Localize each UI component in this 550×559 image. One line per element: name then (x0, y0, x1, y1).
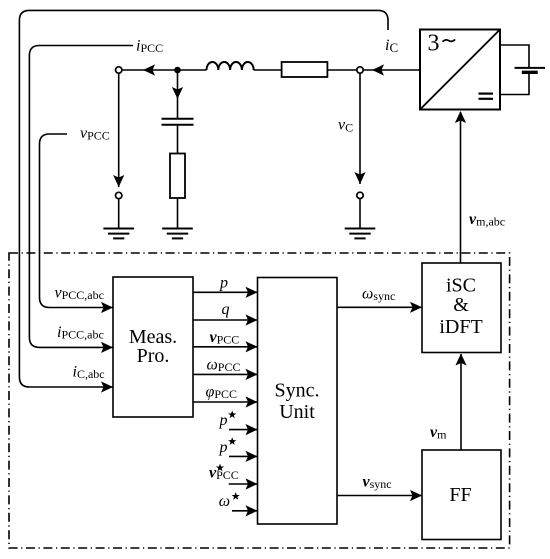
arrowhead v_PCC (down) (113, 175, 124, 187)
open circle v_C probe (357, 192, 363, 198)
wire p* reference (229, 429, 258, 431)
wire resistor to node C (327, 69, 356, 71)
svg-text:φPCC: φPCC (206, 384, 238, 402)
wire omega* reference (232, 510, 258, 512)
svg-text:iPCC: iPCC (136, 38, 163, 56)
wire v_sync (337, 495, 422, 497)
svg-text:q: q (222, 301, 230, 318)
wire DC bus bottom (500, 74, 529, 95)
wire v_m from FF up to iSC (460, 354, 462, 450)
wire i_PCC tap (29, 46, 133, 348)
svg-text:vm,abc: vm,abc (469, 211, 505, 229)
svg-text:p: p (219, 275, 228, 292)
svg-text:Unit: Unit (279, 401, 315, 423)
wire i_C tap (outer curve from Meas.Pro. up over the top to i_C label) (19, 10, 388, 387)
svg-text:Sync.: Sync. (275, 380, 320, 402)
arrowhead v_m,abc (up into inverter) (455, 111, 466, 123)
node PCC open circle (116, 67, 122, 73)
inverter diagonal (420, 30, 500, 110)
battery short plate (522, 71, 538, 74)
inverter label ~ (AC) (443, 39, 456, 41)
wire resistor to ground (177, 198, 179, 228)
ground (v_PCC probe) (103, 229, 134, 239)
wire p* reference 2 (229, 455, 258, 457)
wire shunt branch down from junction (177, 70, 179, 118)
battery long plate (515, 67, 546, 69)
svg-text:&: & (453, 294, 469, 316)
wire v_PCC tap (40, 134, 114, 308)
svg-text:p: p (219, 439, 228, 456)
resistor Rd (shunt, vertical) (170, 154, 185, 199)
arrowhead shunt current (down) (172, 87, 183, 99)
wire omega_sync (337, 306, 422, 308)
arrowhead current i_PCC (pointing left) (143, 64, 155, 75)
arrowhead into Meas.Pro. (i_PCC,abc) (101, 342, 113, 353)
wire v_C measurement branch down (359, 73, 361, 184)
svg-text:ω: ω (219, 493, 230, 510)
wire node C to inverter (363, 69, 420, 71)
svg-text:iPCC,abc: iPCC,abc (57, 324, 104, 342)
svg-text:iC,abc: iC,abc (73, 363, 105, 381)
wire probe to ground (359, 199, 361, 228)
inductor L (207, 62, 254, 70)
svg-text:vPCC: vPCC (210, 329, 240, 347)
junction dot (174, 67, 181, 74)
arrowhead v_C (down) (354, 172, 365, 184)
capacitor C (shunt) (162, 118, 194, 120)
block Sync. Unit (258, 278, 338, 525)
wire v_m,abc from iSC up into inverter (460, 112, 462, 263)
resistor R (series) (282, 62, 328, 77)
svg-text:p: p (219, 412, 228, 429)
node C open circle (357, 67, 363, 73)
inverter label = (DC) (479, 94, 494, 99)
wire capacitor to damping resistor (177, 125, 179, 154)
svg-text:3: 3 (428, 31, 440, 57)
svg-text:ωsync: ωsync (362, 286, 395, 304)
arrowhead into Meas.Pro. (v_PCC,abc) (101, 302, 113, 313)
arrowhead into Meas.Pro. (i_C,abc) (101, 381, 113, 392)
block FF (422, 450, 501, 540)
wire DC bus top (500, 45, 529, 67)
block iSC & iDFT (422, 263, 501, 353)
svg-text:vsync: vsync (363, 474, 392, 492)
svg-text:vm: vm (430, 424, 447, 442)
svg-text:Pro.: Pro. (137, 345, 170, 367)
wire PCC node to junction (122, 69, 178, 71)
svg-text:iDFT: iDFT (439, 316, 482, 338)
svg-text:vPCC: vPCC (80, 125, 110, 143)
ground (shunt branch) (162, 229, 193, 239)
svg-text:vPCC,abc: vPCC,abc (55, 285, 104, 303)
wire v_PCC (193, 346, 258, 348)
wire inductor to resistor (254, 69, 282, 71)
wire q (193, 319, 258, 321)
svg-text:vPCC: vPCC (209, 465, 239, 483)
wire junction to inductor (178, 69, 207, 71)
svg-text:ωPCC: ωPCC (207, 357, 241, 375)
svg-text:FF: FF (449, 484, 471, 506)
wire probe to ground (118, 199, 120, 228)
svg-text:iC: iC (385, 37, 398, 55)
dash-dot control boundary box (9, 253, 510, 548)
inverter box 3~/= (420, 30, 500, 110)
wire phi_PCC (193, 401, 258, 403)
ground (v_C probe) (345, 229, 376, 239)
wire v_PCC measurement branch down (118, 73, 120, 187)
wire omega_PCC (193, 373, 258, 375)
wire v*_PCC reference (229, 483, 258, 485)
wire p (193, 291, 258, 293)
block Meas. Pro. (113, 277, 193, 417)
arrowhead current i_C (pointing left) (372, 64, 384, 75)
open circle v_PCC probe (116, 192, 122, 198)
